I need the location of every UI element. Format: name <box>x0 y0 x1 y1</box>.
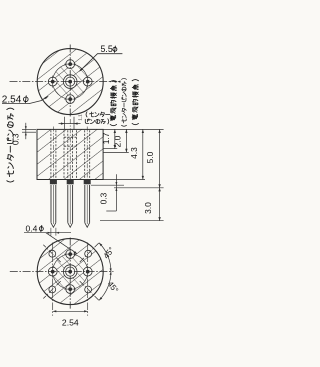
top view: pin E <box>83 76 92 88</box>
side view: pin at x=70.2 with seal bump <box>67 180 74 228</box>
top view: pin N <box>64 60 76 69</box>
bottom view: pin N <box>64 250 76 259</box>
dimension 1.7 <box>101 129 116 148</box>
bottom view: center pin rings <box>63 265 77 279</box>
top view: pin S <box>64 95 76 104</box>
svg-text:3.0: 3.0 <box>143 202 153 214</box>
bottom view: pin W <box>48 266 57 278</box>
side view: pin at x=87.2 with seal bump <box>84 180 91 228</box>
dimension 2.54 dia (bolt circle) with leader <box>2 94 48 105</box>
dimension 2.0 <box>113 129 128 152</box>
dimension 0.3 (left, lid step) <box>11 123 36 145</box>
top view: pin bolt circle <box>53 64 88 99</box>
dimension 3.0 (pin length) <box>143 188 161 221</box>
dimension 0.3 (right, seal) <box>99 174 118 211</box>
svg-text:0.4: 0.4 <box>26 223 38 233</box>
bottom view: vertical centerline <box>69 238 71 309</box>
top view: center pin rings <box>63 75 77 89</box>
bottom view: pin E <box>83 266 92 278</box>
label: (electrical contact) column 3 <box>132 80 138 125</box>
dimension 4.3 <box>129 129 144 179</box>
side view: pin at x=53.4 with seal bump <box>50 180 57 228</box>
bottom view: horizontal centerline <box>10 271 114 273</box>
dimension 5.5 dia (can) with leader <box>79 44 122 72</box>
dimension 45 deg arcs <box>99 243 120 301</box>
dimension: center pin diameter (below top view) <box>59 117 81 129</box>
bottom view: index hole NE <box>85 250 92 257</box>
label: (electrical contact) column 1 <box>110 81 116 126</box>
bottom view: bolt circle <box>53 254 88 289</box>
dimension 0.4 dia (pin) with leader to bottom view pin <box>24 223 77 254</box>
svg-text:1.1: 1.1 <box>77 114 82 121</box>
bottom view: index hole SW <box>49 286 56 293</box>
bottom view: index hole NW <box>49 250 56 257</box>
svg-text:5.5: 5.5 <box>101 44 113 54</box>
label: (center pin only) column 2 <box>122 78 127 126</box>
bottom view: 45 deg axis lines <box>43 243 99 300</box>
svg-text:2.0: 2.0 <box>113 135 123 147</box>
bottom view: pin S <box>64 285 76 294</box>
svg-text:5.0: 5.0 <box>145 151 155 163</box>
bottom view: can base circle (hatched) <box>37 239 103 305</box>
label: (center pin only) left vertical <box>7 108 14 182</box>
top view: horizontal centerline <box>10 81 117 83</box>
side view: can body (hatched rect) <box>37 129 103 179</box>
top view: can body circle (hatched) <box>37 49 103 115</box>
bottom view: index hole SE <box>85 286 92 293</box>
tiny leader arrows at centerline end <box>113 81 121 83</box>
svg-text:4.3: 4.3 <box>129 147 139 159</box>
side view: pin axes (dash-dot) <box>53 119 87 182</box>
side view: hidden pin lines (dashed) <box>51 130 90 179</box>
top view: pin W <box>48 76 57 88</box>
dimension 2.54 (pin pitch) <box>53 243 88 328</box>
dimension 5.0 <box>145 129 161 187</box>
svg-text:2.54: 2.54 <box>62 317 79 327</box>
right side extension lines <box>91 129 164 220</box>
label: 1.1 (center pin only), tiny <box>77 114 82 121</box>
svg-text:0.3: 0.3 <box>99 192 109 204</box>
top view: vertical centerline <box>69 45 71 118</box>
svg-text:1.7: 1.7 <box>101 132 111 144</box>
